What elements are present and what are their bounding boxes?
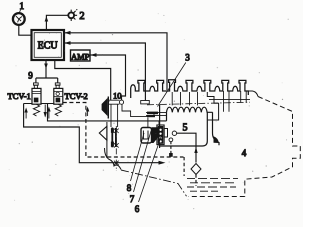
- sensor circle below 5: [169, 138, 173, 142]
- flow arrow up to pump: [194, 147, 197, 153]
- svg-text:5: 5: [183, 123, 188, 134]
- engine block 4 dashed outline: [209, 99, 250, 101]
- fuel pipe dashed from TCV-2: [63, 103, 184, 158]
- wire C: sensor to AMP: [90, 55, 126, 100]
- pump left lower channel: [111, 104, 118, 127]
- leader line 6: [139, 134, 163, 202]
- gauge 1 (sensor dial): [13, 13, 25, 25]
- sensor circle at wire C end: [119, 100, 123, 104]
- svg-text:3: 3: [185, 53, 190, 63]
- boundary dash-dot to engine bottom: [121, 170, 187, 196]
- engine injector stems: [224, 91, 247, 112]
- leader from label 1 to gauge: [19, 10, 20, 13]
- oil level dashes: [187, 178, 238, 191]
- dashed drop to sump: [183, 157, 185, 176]
- wire ECU to lamp with up arrow: [46, 15, 68, 30]
- svg-text:6: 6: [135, 204, 140, 214]
- fuel pipe outer (solid) from TCV-1: [24, 104, 159, 163]
- wire gauge to ECU: [19, 25, 31, 35]
- pump bottom boundary wave: [105, 148, 122, 170]
- svg-text:4: 4: [242, 148, 247, 158]
- flow arrow up on dashed pipe: [87, 110, 89, 116]
- actuator feed links: [148, 118, 159, 128]
- leader line 3: [158, 63, 186, 107]
- svg-text:TCV-2: TCV-2: [65, 91, 88, 101]
- control rack lines: [146, 112, 167, 115]
- pump body black foot: [214, 136, 219, 143]
- governor pivot pole: [106, 122, 108, 158]
- solenoid valve TCV-1: [32, 83, 41, 116]
- pump left port lines to sensor circle: [108, 100, 120, 104]
- pump left end black coupling: [107, 97, 109, 119]
- wire B terminal block: [141, 101, 150, 104]
- lamp 2: [68, 9, 77, 21]
- svg-text:7: 7: [130, 194, 135, 204]
- pipe from 5 to check valve: [177, 133, 196, 162]
- junction pipe between TCVs: [24, 103, 54, 105]
- control rack black link: [147, 112, 158, 115]
- governor flyweight column: [111, 128, 113, 148]
- wire D: ECU bottom to pump: [55, 60, 111, 100]
- flow arrow up inner pipe: [48, 110, 50, 119]
- black square fitting: [169, 153, 173, 157]
- actuator solenoid block: [158, 126, 164, 144]
- actuator housing (items 6-8): [141, 128, 152, 144]
- leader line 7: [134, 131, 152, 192]
- governor axis dash-dot: [115, 126, 117, 171]
- pump main body: [160, 92, 219, 148]
- governor bearing X marks: [114, 129, 119, 165]
- wire ECU to TCVs with down arrow: [36, 60, 58, 83]
- sensor circle 5: [172, 131, 176, 135]
- camshaft dash-dot axis: [147, 102, 250, 105]
- flow arrow down between TCVs: [44, 105, 46, 117]
- actuator solenoid core black: [152, 127, 159, 143]
- svg-text:8: 8: [127, 183, 132, 193]
- ECU U1 box: [32, 30, 65, 60]
- flow arrow right at pipe end: [159, 161, 166, 165]
- wire B: sensor to ECU (second): [64, 43, 145, 101]
- governor pawl flag: [99, 126, 107, 140]
- AMP box: [71, 50, 91, 61]
- scan speckle noise: [9, 13, 289, 209]
- solenoid valve TCV-2: [54, 83, 63, 116]
- check valve diamond: [191, 164, 201, 175]
- dashed drop from sensor: [170, 142, 172, 153]
- svg-text:9: 9: [28, 71, 33, 81]
- leader line 8: [131, 133, 145, 181]
- actuator knob: [164, 129, 167, 138]
- injection pump castellated top profile: [131, 80, 249, 98]
- svg-text:ECU: ECU: [38, 41, 59, 52]
- pump interior steps: [122, 104, 154, 116]
- wire A: sensor to ECU (top): [64, 33, 167, 90]
- governor weights black: [111, 128, 114, 133]
- flow arrow up left pipe: [25, 111, 27, 119]
- dashed suction pipe to sump: [195, 175, 197, 187]
- svg-text:2: 2: [79, 11, 84, 22]
- svg-text:10: 10: [113, 90, 122, 100]
- svg-text:TCV-1: TCV-1: [8, 91, 31, 101]
- fuel pipe inner (solid) between TCVs: [48, 104, 167, 121]
- pump plunger guide stems: [172, 92, 197, 105]
- svg-text:AMP: AMP: [71, 51, 90, 61]
